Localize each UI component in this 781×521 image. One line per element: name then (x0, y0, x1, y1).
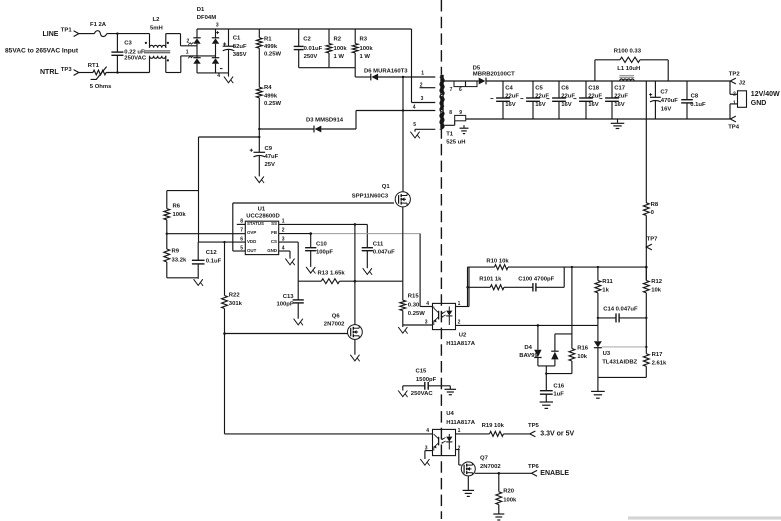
label C5 (535, 85, 549, 108)
svg-text:3: 3 (425, 319, 428, 325)
label C10 (316, 241, 333, 255)
wire D4 top link (555, 333, 572, 335)
transistor Q6 (348, 325, 363, 340)
label U4 (446, 411, 476, 426)
ground (C10) (306, 267, 315, 274)
diode D4b (551, 334, 558, 366)
svg-text:D5: D5 (473, 65, 481, 71)
svg-text:TP3: TP3 (61, 67, 73, 73)
svg-text:4: 4 (282, 245, 285, 251)
svg-text:3: 3 (216, 23, 219, 29)
label R11 (602, 279, 613, 294)
wire R13 line (298, 280, 403, 283)
svg-text:OVP: OVP (247, 230, 256, 235)
svg-text:R8: R8 (651, 202, 659, 208)
svg-text:5: 5 (413, 122, 416, 128)
wire R6 top (167, 190, 199, 192)
wire CS to R13 (279, 242, 299, 281)
U1 right pin names (267, 221, 277, 253)
svg-text:16V: 16V (505, 102, 516, 108)
svg-text:250VAC: 250VAC (411, 391, 434, 397)
svg-text:33.2k: 33.2k (172, 258, 187, 264)
U1 pin 8 stub (237, 219, 246, 225)
svg-text:FB: FB (271, 230, 277, 235)
label D6 (364, 68, 408, 74)
svg-text:100k: 100k (360, 46, 374, 52)
test point TP4 (728, 116, 740, 131)
svg-text:STATUS: STATUS (247, 221, 264, 226)
capacitor C11 (362, 224, 373, 268)
label R16 (577, 346, 589, 361)
wire R10 line (468, 266, 648, 269)
svg-text:25V: 25V (265, 162, 276, 168)
capacitor C18 (573, 81, 593, 119)
svg-text:7: 7 (240, 228, 243, 234)
svg-text:0.30: 0.30 (408, 303, 420, 309)
label RT1 (88, 63, 100, 69)
svg-text:2: 2 (733, 92, 736, 98)
wire U3 ground line (598, 376, 646, 378)
wire ENABLE line (475, 472, 531, 475)
wire VDD feed (199, 136, 261, 242)
resistor R4 (256, 87, 262, 129)
resistor R100 (595, 57, 668, 81)
wire U4 pin2 to Q7 gate (456, 450, 462, 466)
wire RT1 to choke (bottom) (106, 72, 150, 74)
wire D6 line to T1 pin1 (355, 76, 435, 78)
ground (T1 pin5) (410, 132, 419, 139)
resistor R8 (643, 81, 649, 281)
svg-text:SS: SS (271, 221, 277, 226)
svg-text:C7: C7 (660, 89, 668, 95)
svg-text:100k: 100k (503, 497, 517, 503)
resistor R12 (643, 267, 649, 354)
label C16 (553, 384, 565, 398)
label D3 (306, 118, 344, 124)
svg-text:4: 4 (426, 301, 429, 307)
svg-text:2.61k: 2.61k (652, 360, 667, 366)
svg-text:C16: C16 (553, 384, 565, 390)
capacitor C7 (649, 81, 661, 119)
label D1 (197, 7, 216, 21)
test point TP3 (61, 67, 79, 75)
svg-text:7: 7 (450, 87, 453, 93)
label input range (5, 48, 79, 55)
svg-text:16V: 16V (661, 106, 672, 112)
svg-text:T1: T1 (446, 131, 454, 137)
svg-text:100k: 100k (334, 46, 348, 52)
T1 pin labels 8 9 (449, 110, 462, 116)
label R13 (318, 270, 346, 276)
svg-text:22uF: 22uF (505, 94, 519, 100)
svg-text:R12: R12 (651, 279, 663, 285)
svg-text:Q1: Q1 (382, 184, 391, 190)
wire D3 line (258, 111, 356, 131)
svg-text:100pF: 100pF (276, 302, 293, 308)
svg-text:C9: C9 (265, 146, 273, 152)
wire choke to bridge (top) (166, 34, 197, 46)
U2 pin1 wire (456, 267, 470, 306)
svg-text:MBRB20100CT: MBRB20100CT (473, 72, 515, 78)
wire Q1 source (402, 207, 404, 281)
wire OVP line (166, 233, 246, 235)
svg-text:LINE: LINE (43, 31, 59, 38)
svg-text:D4: D4 (524, 345, 532, 351)
label C7 (660, 89, 678, 112)
ground (U1 GND pin) (285, 251, 294, 265)
ground (Q6 source) (350, 339, 359, 361)
ground (C9) (255, 176, 264, 183)
wire R19 line (456, 433, 530, 435)
wire R10 left leg (466, 267, 468, 306)
svg-text:R101 1k: R101 1k (479, 277, 502, 283)
ground (U4 pin3) (420, 459, 429, 466)
transistor Q7 (461, 462, 475, 476)
svg-text:301k: 301k (229, 301, 243, 307)
capacitor C16 (540, 366, 553, 402)
svg-text:C2: C2 (303, 37, 311, 43)
diode D3 (314, 126, 321, 133)
svg-text:3: 3 (421, 96, 424, 102)
svg-text:R10 10k: R10 10k (486, 259, 509, 265)
bridge D1 left branch (193, 29, 200, 73)
resistor R9 (164, 249, 170, 278)
resistor R13 (321, 279, 339, 284)
diode D4a (534, 325, 541, 366)
svg-text:GND: GND (267, 248, 277, 253)
U1 pin 2 stub (282, 228, 285, 234)
svg-text:22uF: 22uF (561, 94, 575, 100)
wire drain vertical (402, 76, 404, 192)
svg-text:C18: C18 (588, 85, 600, 91)
label R100 (614, 49, 642, 55)
svg-text:2: 2 (282, 228, 285, 234)
wire R101 line (468, 267, 565, 287)
label J2 (739, 81, 746, 87)
label R6 (173, 204, 187, 219)
svg-text:OUT: OUT (247, 248, 257, 253)
svg-text:2N7002: 2N7002 (480, 464, 501, 470)
transformer T1 pin5 lead (415, 129, 435, 131)
label R20 (503, 489, 517, 504)
svg-text:TP2: TP2 (729, 72, 741, 78)
svg-text:10k: 10k (577, 354, 588, 360)
op-amp U1 UCC28600D box (245, 221, 278, 254)
label C3 (124, 40, 147, 61)
capacitor C2 (294, 29, 304, 68)
label C13 (276, 294, 294, 308)
wire R15 to U2 (403, 324, 433, 326)
wire LINE to fuse (79, 33, 95, 35)
svg-text:L2: L2 (153, 17, 161, 23)
svg-text:R17: R17 (652, 352, 664, 358)
label U1 (246, 206, 279, 219)
wire U3 ref (602, 346, 648, 348)
wire secondary bottom rail (466, 118, 730, 120)
capacitor C5 (520, 81, 540, 119)
bridge pin labels (186, 23, 223, 79)
svg-text:R13 1.65k: R13 1.65k (318, 270, 346, 276)
label C6 (561, 85, 575, 108)
svg-text:6: 6 (240, 236, 243, 242)
resistor R2 (326, 29, 332, 68)
wire choke to bridge (bottom) (166, 56, 216, 73)
svg-text:R11: R11 (602, 279, 613, 285)
svg-text:NTRL: NTRL (40, 69, 59, 76)
label C8 (690, 93, 706, 108)
bridge bottom wire (197, 72, 229, 74)
wire HV rail (197, 28, 412, 30)
svg-text:R6: R6 (173, 204, 181, 210)
svg-text:0.01uF: 0.01uF (304, 46, 323, 52)
ground (secondary winding) (460, 125, 469, 133)
capacitor C14 (597, 313, 648, 322)
svg-text:C13: C13 (283, 294, 295, 300)
svg-text:12V/40W: 12V/40W (751, 91, 780, 98)
svg-text:5 Ohms: 5 Ohms (90, 84, 112, 90)
capacitor C17 (599, 81, 619, 119)
svg-text:C14 0.047uF: C14 0.047uF (603, 306, 638, 312)
svg-text:U4: U4 (446, 411, 454, 417)
shunt regulator U3 (594, 325, 602, 377)
svg-text:1uF: 1uF (553, 392, 564, 398)
svg-text:1: 1 (421, 71, 424, 77)
label R17 (652, 352, 667, 366)
svg-text:1 W: 1 W (360, 54, 371, 60)
label C18 (588, 85, 602, 108)
label U3 (602, 351, 637, 365)
resistor R16 (569, 267, 575, 374)
wire FB line (279, 232, 433, 306)
capacitor C12 (192, 242, 205, 279)
wire D5 to TP2 rail (486, 80, 730, 82)
bridge ac squiggle top (188, 42, 193, 45)
svg-text:R15: R15 (408, 294, 420, 300)
transformer T1 pin labels (413, 71, 425, 128)
isolation dashed line (440, 0, 442, 519)
svg-text:2: 2 (420, 83, 423, 89)
svg-text:R9: R9 (172, 249, 180, 255)
thermistor RT1 (91, 67, 107, 80)
svg-text:D3 MMSD914: D3 MMSD914 (306, 118, 344, 124)
svg-text:100pF: 100pF (316, 250, 333, 256)
svg-text:D1: D1 (197, 7, 205, 13)
svg-text:2N7002: 2N7002 (324, 322, 345, 328)
svg-text:C10: C10 (316, 241, 328, 247)
resistor R20 (496, 473, 502, 513)
wire OUT to Q1 gate (233, 203, 394, 251)
label L1 (617, 66, 640, 72)
svg-text:0.25W: 0.25W (264, 52, 281, 58)
T1 pins 7-6 box (454, 81, 477, 87)
svg-text:R1: R1 (264, 36, 272, 42)
svg-text:UCC28600D: UCC28600D (246, 214, 279, 220)
svg-text:R100 0.33: R100 0.33 (614, 49, 642, 55)
test point TP5 (528, 423, 540, 437)
ground (C12/R9) (194, 279, 203, 286)
label R101 (479, 277, 502, 283)
svg-text:0.1uF: 0.1uF (690, 102, 706, 108)
svg-text:2: 2 (458, 319, 461, 325)
wire fuse to choke (top) (107, 33, 150, 35)
label C12 (206, 250, 222, 265)
svg-text:L1 10uH: L1 10uH (617, 66, 640, 72)
svg-text:100k: 100k (173, 212, 187, 218)
svg-text:J2: J2 (739, 81, 746, 87)
wire gate line to U4 (225, 334, 433, 434)
svg-text:1: 1 (458, 428, 461, 434)
svg-text:3.3V or 5V: 3.3V or 5V (540, 431, 574, 438)
svg-text:C5: C5 (535, 85, 543, 91)
U1 pin 1 stub (282, 219, 285, 225)
svg-text:4: 4 (413, 105, 416, 111)
label R15 (408, 294, 425, 318)
svg-text:F1 2A: F1 2A (90, 22, 107, 28)
ground (C15 left) (398, 386, 407, 397)
test point TP1 (61, 28, 79, 37)
resistor R15 (400, 281, 406, 325)
svg-text:525 uH: 525 uH (446, 140, 465, 146)
U1 pin 6 stub (240, 236, 243, 242)
label 3.3V or 5V (540, 431, 574, 438)
transformer T1 primary lower (440, 111, 444, 130)
resistor R17 (643, 354, 649, 378)
resistor R3 (352, 29, 358, 68)
U2 pin numbers (425, 301, 461, 325)
label C4 (505, 85, 519, 108)
wire T1 secondary bottom lead (444, 124, 454, 126)
ground (R20) (493, 514, 504, 520)
wire R16 bottom link (546, 373, 572, 375)
label output (751, 91, 780, 107)
svg-text:H11A817A: H11A817A (446, 420, 476, 426)
ground (C15 right) (445, 386, 457, 395)
capacitor C1 (223, 29, 235, 73)
label R8 (651, 202, 659, 216)
capacitor C4 (490, 81, 510, 119)
wire T1 secondary top lead (444, 80, 478, 82)
svg-text:9: 9 (459, 110, 462, 116)
capacitor C9 (250, 129, 265, 176)
svg-text:U3: U3 (603, 351, 611, 357)
U1 pin 3 stub (282, 236, 285, 242)
svg-text:VDD: VDD (247, 239, 256, 244)
wire Q6 drain (354, 224, 356, 324)
U1 pin 4 stub (279, 245, 290, 251)
capacitor C3 (111, 32, 123, 73)
svg-text:C15: C15 (416, 369, 428, 375)
label C9 (265, 146, 279, 168)
svg-text:3: 3 (282, 236, 285, 242)
inductor L1 (619, 76, 634, 81)
label R12 (651, 279, 663, 294)
svg-text:TP1: TP1 (61, 28, 73, 34)
resistor R1 (256, 29, 262, 87)
svg-text:Q6: Q6 (332, 314, 341, 320)
svg-text:R22: R22 (229, 292, 241, 298)
svg-text:Q7: Q7 (480, 456, 489, 462)
svg-text:499k: 499k (264, 44, 278, 50)
label Q6 (324, 314, 345, 328)
ground (Q7 source) (463, 476, 474, 496)
label Q1 (352, 184, 391, 200)
wire clamp bottom (299, 68, 356, 77)
svg-text:R2: R2 (334, 37, 342, 43)
svg-text:0.25W: 0.25W (264, 101, 281, 107)
U4 pin numbers (425, 428, 461, 451)
wire D3/pin4 line (356, 110, 435, 112)
capacitor C13 (293, 281, 304, 319)
svg-text:1k: 1k (602, 288, 609, 294)
svg-text:22uF: 22uF (614, 94, 628, 100)
svg-text:1 W: 1 W (334, 54, 345, 60)
svg-text:TP7: TP7 (647, 237, 659, 243)
label R19 (482, 423, 505, 429)
svg-text:BAV99: BAV99 (519, 353, 538, 359)
ground (U3) (591, 377, 605, 398)
test point TP2 (729, 72, 741, 84)
label Q7 (480, 456, 501, 470)
wire J2 to bottom rail (730, 104, 738, 119)
label R4 (264, 85, 281, 107)
svg-text:8: 8 (449, 110, 452, 116)
ground (R15) (398, 325, 407, 334)
connector J2 (733, 91, 747, 108)
svg-text:16V: 16V (561, 102, 572, 108)
wire opto LED line (456, 324, 598, 327)
T1 pins 8-9 box (455, 115, 466, 125)
svg-text:470uF: 470uF (661, 98, 678, 104)
label R2 (334, 37, 348, 61)
wire rail to T1 pin3 (412, 29, 436, 103)
svg-text:82uF: 82uF (233, 44, 247, 50)
label C14 (603, 306, 638, 312)
U1 pin 5 stub (240, 245, 243, 251)
resistor R19 (490, 431, 504, 436)
ground (C16) (540, 402, 553, 408)
svg-text:SPP11N60C3: SPP11N60C3 (352, 194, 389, 200)
wire SS line (279, 223, 368, 226)
resistor R11 (595, 267, 601, 325)
label C2 (303, 37, 322, 61)
diode D6 (371, 74, 378, 81)
svg-text:C12: C12 (206, 250, 218, 256)
optocoupler U4 (433, 429, 456, 455)
label C100 (518, 277, 554, 283)
label L2 (150, 17, 163, 31)
test point TP6 (528, 464, 540, 476)
svg-text:5: 5 (240, 245, 243, 251)
diode D5 (479, 78, 486, 85)
svg-text:C8: C8 (691, 93, 699, 99)
node LINE label (43, 31, 59, 38)
label F1 2A (90, 22, 107, 28)
wire VDD line (199, 241, 246, 243)
label ENABLE (540, 470, 569, 477)
label C11 (373, 241, 395, 255)
svg-text:TP4: TP4 (728, 125, 740, 131)
svg-text:385V: 385V (233, 52, 247, 58)
svg-text:C17: C17 (614, 85, 626, 91)
transformer T1 secondary (440, 81, 444, 125)
wire Q6 gate line (223, 332, 348, 335)
label T1 (446, 131, 465, 145)
svg-text:C100 4700pF: C100 4700pF (518, 277, 554, 283)
U1 pin 7 stub (240, 228, 243, 234)
capacitor C6 (546, 81, 566, 119)
label R22 (229, 292, 243, 307)
resistor R10 (494, 265, 508, 270)
